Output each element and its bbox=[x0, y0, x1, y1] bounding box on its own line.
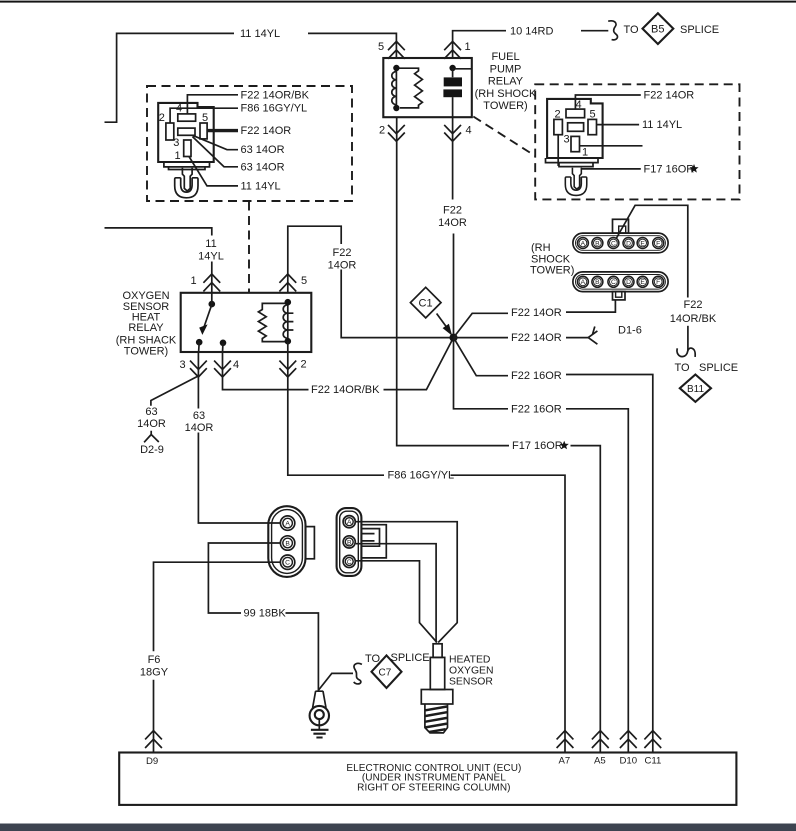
oxygen relay coil node bottom bbox=[285, 338, 292, 345]
svg-text:14OR/BK: 14OR/BK bbox=[670, 313, 717, 325]
connector flange (left detail) bbox=[164, 162, 210, 170]
svg-text:E: E bbox=[640, 279, 645, 286]
svg-text:TOWER): TOWER) bbox=[124, 346, 168, 358]
oxygen relay pin 1 arrow bbox=[203, 274, 220, 291]
wire F86 16GY/YL to ECU A7 bbox=[451, 475, 566, 752]
oxygen relay coil node top bbox=[285, 299, 292, 306]
connector symbol C1 bbox=[410, 287, 441, 318]
svg-text:A: A bbox=[581, 279, 586, 286]
svg-text:RELAY: RELAY bbox=[128, 322, 164, 334]
connector body (right detail) bbox=[547, 99, 603, 158]
svg-text:11 14YL: 11 14YL bbox=[240, 28, 280, 40]
wire row3 to ECU C11 bbox=[566, 375, 653, 753]
svg-text:OXYGEN: OXYGEN bbox=[122, 290, 169, 302]
svg-text:F17 16OR: F17 16OR bbox=[644, 163, 695, 175]
svg-text:18GY: 18GY bbox=[140, 666, 169, 678]
svg-text:B5: B5 bbox=[651, 24, 664, 36]
svg-text:TOWER): TOWER) bbox=[530, 265, 574, 277]
upper connector pin circles A-F bbox=[577, 238, 663, 249]
cavity 4 (right detail) bbox=[566, 109, 585, 118]
wire sensor A bbox=[356, 522, 457, 643]
dashed detail box (fuel pump relay connector view) bbox=[535, 84, 739, 199]
svg-text:TO: TO bbox=[624, 24, 640, 36]
oxygen relay pin2 stem bbox=[287, 341, 289, 352]
svg-text:F22 14OR: F22 14OR bbox=[511, 307, 562, 319]
svg-text:1: 1 bbox=[191, 275, 197, 287]
label F22 14OR (pin5 wire) bbox=[328, 247, 357, 272]
svg-text:F22 14OR: F22 14OR bbox=[511, 332, 562, 344]
svg-text:A: A bbox=[285, 521, 290, 528]
dash-dot leader from left detail box to relay bbox=[248, 202, 250, 293]
heated oxygen sensor body bbox=[421, 644, 453, 733]
svg-text:63: 63 bbox=[193, 410, 205, 422]
leader cavity4 to F22 14OR (right detail) bbox=[575, 95, 640, 109]
wire junction to F22 14OR row 2 bbox=[454, 337, 509, 339]
fuel relay contact stem bbox=[452, 68, 454, 117]
svg-text:(RH SHACK: (RH SHACK bbox=[116, 334, 177, 346]
svg-text:F22: F22 bbox=[684, 299, 703, 311]
branch to splice C7 bbox=[319, 673, 353, 690]
bottom left connector body bbox=[268, 506, 305, 577]
svg-text:14OR: 14OR bbox=[137, 418, 166, 430]
cavity 1 (right detail) bbox=[571, 136, 580, 151]
svg-text:RELAY: RELAY bbox=[488, 76, 524, 88]
wire F17 16OR to ECU A5 bbox=[571, 446, 601, 753]
svg-text:OXYGEN: OXYGEN bbox=[449, 665, 493, 676]
shock tower connector upper (D1) bbox=[573, 233, 668, 253]
svg-text:C: C bbox=[611, 279, 616, 286]
cavity 1 (left detail) bbox=[184, 140, 191, 157]
svg-text:2: 2 bbox=[555, 108, 561, 120]
bottom dark bar bbox=[0, 824, 796, 831]
svg-text:B: B bbox=[347, 539, 352, 546]
svg-text:D: D bbox=[626, 279, 631, 286]
cavity 2 (left detail) bbox=[166, 123, 174, 140]
oxygen relay switch arm bbox=[203, 305, 212, 330]
oxygen relay pin4 stem bbox=[222, 343, 225, 352]
svg-text:F22 14OR/BK: F22 14OR/BK bbox=[311, 384, 380, 396]
oxygen relay pin1 stem bbox=[211, 293, 213, 304]
svg-text:63: 63 bbox=[145, 406, 157, 418]
bottom right connector pin A bbox=[343, 516, 355, 528]
label F22 14OR/BK (right) bbox=[670, 299, 717, 325]
svg-text:3: 3 bbox=[173, 137, 179, 149]
svg-text:SENSOR: SENSOR bbox=[449, 676, 493, 687]
fuel relay coil node (top) bbox=[393, 65, 399, 71]
oxygen relay resistor bbox=[258, 303, 287, 341]
svg-text:RIGHT OF STEERING COLUMN): RIGHT OF STEERING COLUMN) bbox=[357, 783, 510, 794]
ground symbol bbox=[311, 719, 329, 737]
svg-text:1: 1 bbox=[175, 150, 181, 162]
bottom right connector pin B bbox=[343, 536, 355, 548]
svg-text:5: 5 bbox=[378, 41, 384, 53]
svg-text:F6: F6 bbox=[148, 654, 161, 666]
oxygen relay switch output node bbox=[196, 339, 203, 346]
ECU pin D9 arrow bbox=[145, 731, 162, 748]
ECU pin A5 arrow bbox=[592, 731, 609, 767]
svg-text:1: 1 bbox=[465, 41, 471, 53]
junction node bbox=[449, 334, 457, 342]
oxygen relay pin 2 arrow bbox=[279, 361, 296, 377]
bottom right connector pin C bbox=[343, 555, 355, 567]
svg-text:2: 2 bbox=[379, 124, 385, 136]
cavity 3 slot (left detail) bbox=[178, 128, 195, 135]
svg-text:A7: A7 bbox=[559, 756, 571, 767]
fuel relay coil node (bottom) bbox=[393, 105, 399, 111]
svg-text:14OR: 14OR bbox=[185, 422, 214, 434]
leader cavity1 to 11 14YL bbox=[189, 157, 238, 186]
svg-text:4: 4 bbox=[233, 359, 239, 371]
connector lock (left detail) bbox=[175, 168, 198, 198]
svg-text:D1-6: D1-6 bbox=[618, 325, 642, 337]
wire 11 14YL to oxygen relay pin 1 bbox=[105, 228, 212, 293]
wire F17 16OR from fuel relay pin 2 bbox=[397, 117, 509, 445]
svg-text:C7: C7 bbox=[379, 668, 392, 679]
svg-text:B11: B11 bbox=[687, 384, 704, 395]
svg-text:3: 3 bbox=[180, 359, 186, 371]
svg-text:11 14YL: 11 14YL bbox=[241, 180, 281, 192]
leader cavity4 to F22 14OR/BK bbox=[187, 95, 238, 114]
leader cavity5 to F22 14OR (thick) bbox=[207, 129, 238, 132]
label F22 14OR (pin4 fuel relay) bbox=[438, 204, 467, 229]
shock tower connector lower (D1-6) bbox=[573, 272, 668, 292]
wire sensor C bbox=[356, 561, 437, 643]
wire B to 99 18BK bbox=[208, 543, 280, 613]
fuel relay contact node pin1 bbox=[449, 65, 455, 71]
wire 11 14YL (top left run) bbox=[105, 33, 397, 122]
wire F22 14OR/BK label to junction bbox=[384, 339, 454, 390]
svg-text:14OR: 14OR bbox=[328, 260, 357, 272]
wire sensor B bbox=[356, 544, 436, 643]
svg-text:F22 14OR: F22 14OR bbox=[644, 90, 695, 102]
ECU pin A7 arrow bbox=[557, 731, 574, 767]
oxygen relay pin 5 arrow bbox=[279, 274, 296, 291]
svg-text:B: B bbox=[595, 240, 600, 247]
svg-text:1: 1 bbox=[582, 147, 588, 159]
star (right detail) bbox=[689, 164, 698, 173]
cavity 4 (left detail) bbox=[178, 114, 196, 121]
oxygen relay switch common node bbox=[209, 301, 216, 308]
ECU label bbox=[346, 763, 521, 794]
leader cavity3 to 63 14OR (first) bbox=[193, 135, 239, 149]
svg-text:11: 11 bbox=[205, 238, 216, 250]
upper connector top tab bbox=[613, 219, 629, 233]
svg-text:B: B bbox=[285, 541, 290, 548]
label (RH SHOCK TOWER) middle bbox=[530, 242, 574, 276]
connector flange (right detail) bbox=[546, 158, 599, 167]
fork symbol D1-6 bbox=[588, 327, 597, 345]
svg-text:11 14YL: 11 14YL bbox=[642, 119, 682, 131]
svg-text:F86 16GY/YL: F86 16GY/YL bbox=[388, 470, 455, 482]
fuel relay pin 5 arrow bbox=[388, 41, 405, 58]
ring terminal stem bbox=[313, 691, 326, 708]
oxygen relay pin3 stem bbox=[198, 342, 201, 352]
ECU box bbox=[119, 753, 736, 805]
cavity 5 (right detail) bbox=[588, 119, 597, 134]
fork symbol D2-9 bbox=[144, 431, 159, 443]
page top border line bbox=[0, 1, 796, 3]
wire 10 14RD bbox=[453, 31, 609, 58]
oxygen relay pin4 node bbox=[220, 340, 227, 347]
ring terminal eyelet bbox=[310, 706, 329, 725]
wire row4 to ECU D10 bbox=[566, 409, 628, 753]
svg-text:SPLICE: SPLICE bbox=[680, 24, 719, 36]
bottom left connector pin A bbox=[280, 516, 294, 530]
fuel relay pin 1 arrow bbox=[444, 41, 461, 58]
bottom left connector tab bbox=[306, 527, 315, 559]
svg-text:(RH SHOCK: (RH SHOCK bbox=[475, 88, 537, 100]
ECU pin D10 arrow bbox=[620, 731, 638, 767]
hook to splice C7 bbox=[354, 663, 362, 684]
svg-text:C: C bbox=[611, 240, 616, 247]
connector body (left detail) bbox=[158, 103, 214, 162]
bottom left connector pin B bbox=[280, 536, 294, 550]
svg-text:63 14OR: 63 14OR bbox=[241, 161, 285, 173]
svg-text:D2-9: D2-9 bbox=[140, 444, 164, 456]
C1 arrow to junction bbox=[437, 314, 447, 328]
wire to splice B11 bbox=[687, 326, 689, 351]
svg-text:14OR: 14OR bbox=[438, 217, 467, 229]
svg-text:F22 14OR: F22 14OR bbox=[241, 125, 292, 137]
oxygen relay switch arrowhead bbox=[199, 324, 207, 335]
svg-text:D9: D9 bbox=[146, 756, 158, 767]
svg-text:E: E bbox=[640, 240, 645, 247]
svg-text:SPLICE: SPLICE bbox=[391, 652, 430, 664]
svg-text:FUEL: FUEL bbox=[491, 51, 519, 63]
svg-text:F: F bbox=[656, 240, 660, 247]
svg-text:C: C bbox=[347, 559, 352, 566]
svg-text:A5: A5 bbox=[594, 756, 606, 767]
hook to splice B11 bbox=[677, 348, 695, 357]
svg-text:F22: F22 bbox=[443, 204, 462, 216]
svg-text:5: 5 bbox=[202, 112, 208, 124]
bottom right connector tab bbox=[361, 525, 386, 558]
leader cavity2 to F86 16GY/YL bbox=[170, 108, 238, 123]
dashed detail box (oxygen relay connector view) bbox=[147, 86, 352, 201]
svg-text:A: A bbox=[347, 519, 352, 526]
wire upper connector C to F22 14OR/BK bbox=[617, 205, 688, 297]
svg-text:B: B bbox=[595, 279, 600, 286]
svg-text:63 14OR: 63 14OR bbox=[241, 144, 285, 156]
cavity 2 (right detail) bbox=[554, 119, 563, 134]
svg-text:D10: D10 bbox=[620, 756, 638, 767]
oxygen relay pin 3 arrow bbox=[190, 361, 207, 377]
splice symbol B5 bbox=[643, 13, 674, 44]
svg-text:99 18BK: 99 18BK bbox=[244, 608, 287, 620]
svg-text:C: C bbox=[285, 560, 290, 567]
ECU pin C11 arrow bbox=[644, 731, 661, 767]
svg-text:C1: C1 bbox=[419, 298, 433, 310]
svg-text:TOWER): TOWER) bbox=[483, 100, 527, 112]
svg-text:F: F bbox=[656, 279, 660, 286]
svg-text:F86 16GY/YL: F86 16GY/YL bbox=[241, 103, 308, 115]
wire 99 18BK to ring terminal bbox=[286, 613, 319, 691]
svg-text:TO: TO bbox=[675, 362, 691, 374]
svg-text:10 14RD: 10 14RD bbox=[510, 26, 553, 38]
svg-text:3: 3 bbox=[564, 133, 570, 145]
svg-text:F22 16OR: F22 16OR bbox=[511, 403, 562, 415]
svg-text:F22 16OR: F22 16OR bbox=[511, 370, 562, 382]
svg-text:C11: C11 bbox=[645, 756, 662, 767]
oxygen relay pin 4 arrow bbox=[214, 361, 231, 377]
svg-text:14YL: 14YL bbox=[198, 251, 224, 263]
svg-text:A: A bbox=[581, 240, 586, 247]
fuel relay resistor bbox=[396, 68, 422, 108]
wire junction to F22 16OR row 4 bbox=[454, 338, 509, 409]
lower connector bottom tab bbox=[613, 292, 626, 300]
oxygen sensor heat relay box bbox=[181, 293, 312, 352]
leader cavity2 down to F17 16OR bbox=[558, 135, 641, 169]
svg-text:2: 2 bbox=[159, 112, 165, 124]
wire 63 14OR from pin 3 bbox=[198, 352, 280, 523]
label 11 14YL (pin1) bbox=[198, 238, 224, 263]
hook to splice B5 bbox=[608, 21, 617, 40]
wire F22 14OR fuel relay pin4 to junction bbox=[452, 117, 455, 333]
wire F86 16GY/YL from pin 2 bbox=[288, 352, 384, 475]
svg-text:SHOCK: SHOCK bbox=[531, 253, 571, 265]
label 63 14OR (pin3) bbox=[185, 410, 214, 434]
splice symbol B11 bbox=[680, 375, 711, 402]
cavity 5 (left detail) bbox=[200, 123, 207, 139]
connector lock (right detail) bbox=[565, 168, 586, 196]
wire row2 to fork bbox=[566, 337, 588, 339]
fuel relay contact pad lower bbox=[443, 89, 462, 97]
svg-text:(RH: (RH bbox=[531, 242, 551, 254]
label HEATED OXYGEN SENSOR bbox=[449, 654, 493, 687]
fuel relay contact pad upper bbox=[444, 77, 462, 86]
svg-text:2: 2 bbox=[301, 359, 307, 371]
oxygen relay label bbox=[116, 290, 177, 358]
svg-text:F22: F22 bbox=[333, 247, 352, 259]
svg-text:F17 16OR: F17 16OR bbox=[512, 440, 563, 452]
wire junction to F22 16OR row 3 bbox=[454, 338, 509, 376]
fuel relay coil bbox=[392, 68, 397, 108]
wire junction to F22 14OR row 1 bbox=[454, 313, 509, 337]
fuel relay contact link to case bbox=[453, 68, 472, 70]
wire C to F6 18GY bbox=[154, 562, 281, 752]
splice symbol C7 bbox=[372, 655, 402, 688]
wire F22 14OR from oxygen relay pin 5 bbox=[288, 226, 450, 337]
bottom right connector body bbox=[337, 508, 362, 576]
label 63 14OR (D2-9 branch) bbox=[137, 406, 166, 430]
dashed diagonal leader (fuel relay to detail box) bbox=[473, 117, 535, 156]
bottom left connector pin C bbox=[280, 555, 294, 569]
svg-text:4: 4 bbox=[576, 99, 582, 111]
leader cavity5 to 11 14YL (right detail) bbox=[597, 124, 640, 126]
svg-text:SPLICE: SPLICE bbox=[699, 362, 738, 374]
svg-text:5: 5 bbox=[301, 275, 307, 287]
wire row1 to shock tower connector C bbox=[566, 300, 615, 312]
leader (blank) from cavity 1 bbox=[580, 145, 643, 147]
svg-text:5: 5 bbox=[590, 108, 596, 120]
label F6 18GY bbox=[140, 654, 169, 679]
star (row 5) bbox=[560, 441, 569, 450]
svg-text:4: 4 bbox=[466, 124, 472, 136]
svg-text:HEATED: HEATED bbox=[449, 654, 490, 665]
svg-text:F22 14OR/BK: F22 14OR/BK bbox=[241, 89, 310, 101]
svg-text:D: D bbox=[626, 240, 631, 247]
lower connector pin circles A-F bbox=[577, 276, 663, 287]
branch wire to D2-9 bbox=[151, 376, 198, 406]
fuel relay pin 2 arrow bbox=[388, 125, 405, 141]
fuel pump relay box bbox=[383, 58, 472, 117]
fuel relay pin 4 arrow bbox=[444, 125, 461, 141]
oxygen relay coil bbox=[283, 302, 293, 341]
cavity 3 slot (right detail) bbox=[568, 123, 584, 132]
leader to 63 14OR (second) bbox=[193, 137, 239, 167]
fuel pump relay label bbox=[475, 51, 537, 112]
wire F22 14OR/BK from pin 4 bbox=[223, 352, 309, 390]
svg-text:PUMP: PUMP bbox=[490, 63, 522, 75]
